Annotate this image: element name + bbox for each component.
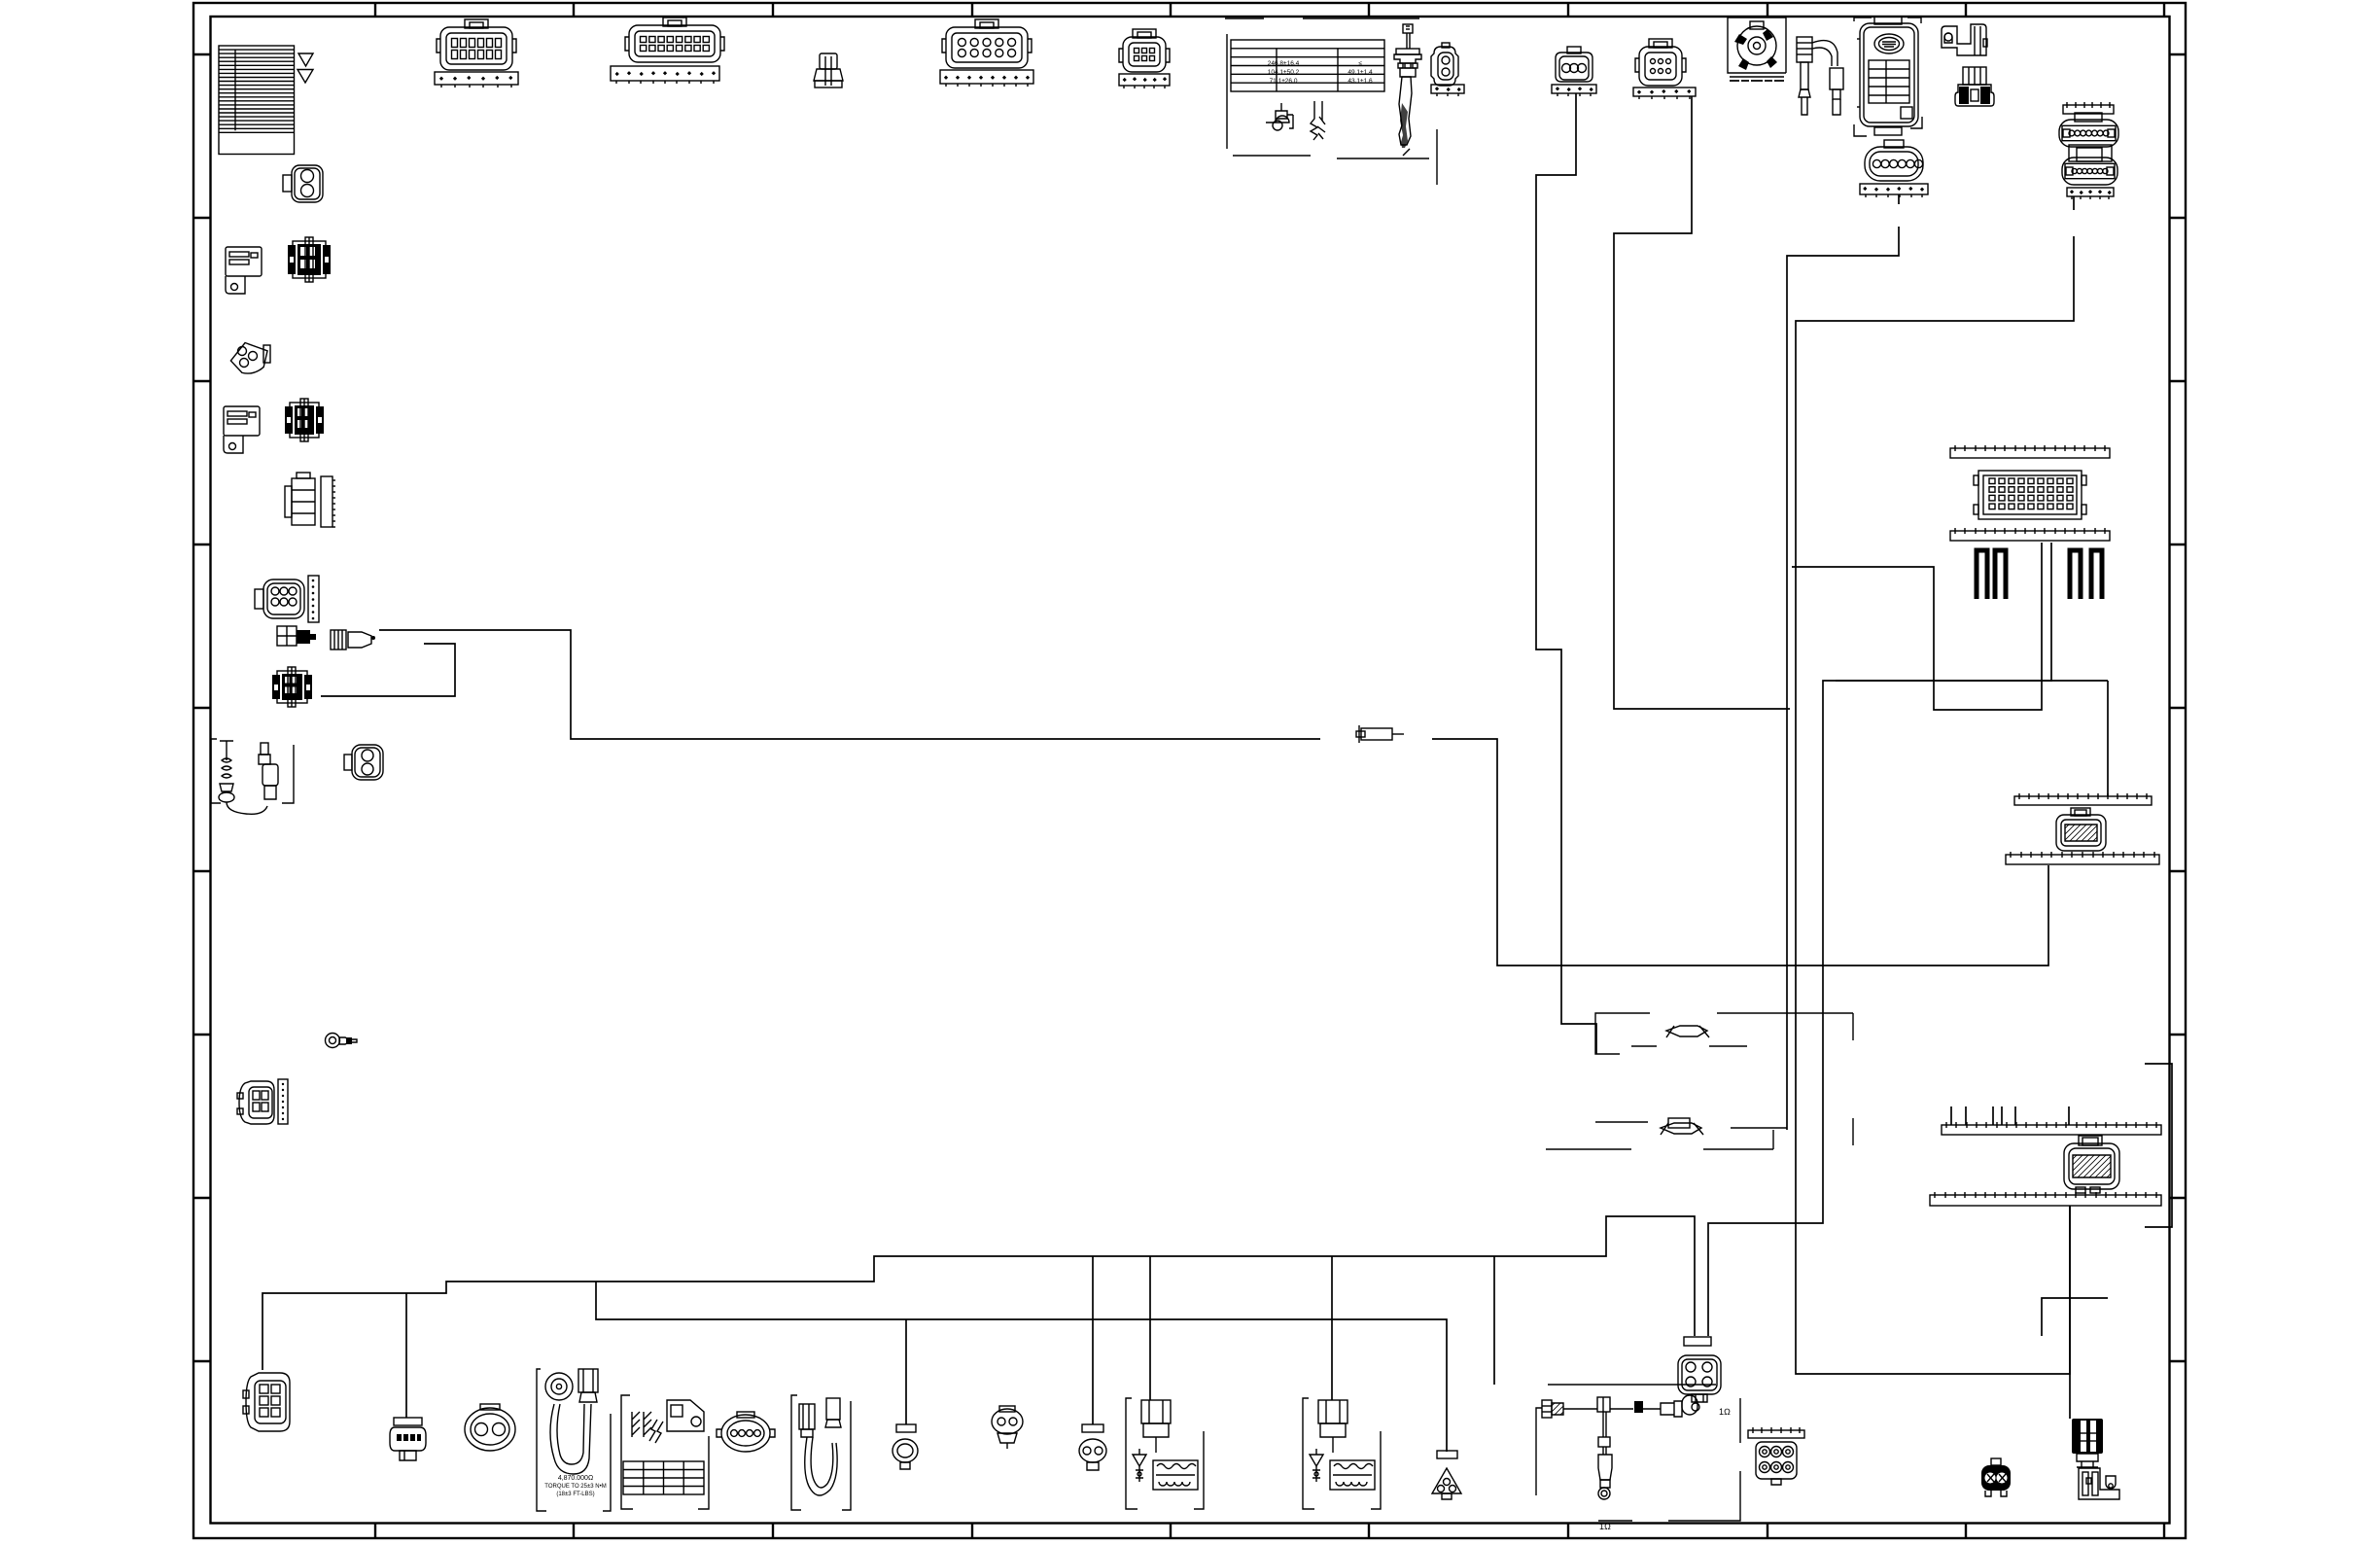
svg-text:(18±3 FT-LBS): (18±3 FT-LBS) [556,1492,594,1497]
connector 6-pin round with strip [255,579,304,618]
connector C110 strip [2063,102,2114,114]
spark sensor T-assembly [1536,1385,1740,1521]
wire from C107 long [1536,93,1596,1054]
connector C110 [2059,113,2118,147]
MAP sensor assembly [621,1395,709,1509]
connector C112 lower strip [2006,852,2159,864]
connector C109 6-pin oval [1865,140,1923,181]
ECU2 pin stubs [1951,1106,2069,1125]
ECU2 lower strip [1930,1192,2161,1206]
pressure switch box 2 [1546,1118,1853,1149]
parts list table [219,46,295,155]
control module [1854,17,1922,136]
wire from C111 [1796,196,2074,1374]
connector 31 with strip [237,1081,274,1124]
pressure switch box 1 [1595,1013,1853,1054]
right bracket [2145,1064,2172,1227]
main harness wire 1 [379,630,2048,966]
sensor connector 50 [1079,1424,1106,1470]
svg-text:1Ω: 1Ω [1599,1522,1611,1531]
connector C111 [2062,145,2117,185]
ECU fork terminals [1977,550,2102,599]
B5GX sensor [390,1418,426,1460]
svg-text:≤: ≤ [1358,60,1362,67]
wire below ECU2 [2069,1206,2071,1419]
wire from C109 [1787,194,1899,1130]
connector 2-pin round [283,165,323,202]
connector 2-pin round B [344,745,383,780]
inline fuse [1356,725,1404,743]
connector 40 L-plug [2079,1468,2119,1499]
triangle connector [227,337,272,377]
wire bottom staircase B [596,1282,1447,1452]
wire ECU to conn36 [1708,543,2051,1336]
pin connector 2 [285,399,324,441]
fuel pump assembly [1394,24,1421,156]
terminal 4-pin [277,626,316,646]
connector C107 3-pin [1556,47,1592,82]
oxygen sensor loop assembly [791,1395,851,1510]
sensor connector 49 [992,1406,1023,1449]
connector C103 small 2-pin [814,53,843,88]
ignition coil assembly 1 [1126,1398,1204,1509]
connector C105 6-pin [1119,29,1170,72]
ignition coil assembly 2 [1303,1398,1381,1509]
svg-text:TORQUE TO 25±3 N•M: TORQUE TO 25±3 N•M [544,1484,606,1490]
connector 36 4-pin [1678,1337,1721,1402]
revision triangle 1 [298,53,313,66]
ECU2 connector [2064,1136,2119,1193]
ECU connector top strip [1950,445,2110,458]
svg-text:49.1±1.4: 49.1±1.4 [1347,69,1373,76]
symbol float [1266,103,1293,128]
wire to B5GX [405,1293,407,1418]
connector 39 [2072,1419,2103,1467]
svg-text:1Ω: 1Ω [1719,1407,1731,1417]
connector 53 [1981,1458,2011,1496]
connector C112 [2056,808,2106,851]
connector C101 12-pin [437,19,516,70]
wire ECU branch W12 [1792,543,2042,710]
connector 27 [272,667,312,707]
oval 5-pin connector [717,1412,775,1452]
wire ECU to C112 top [1836,681,2108,796]
connector C108 6-pin round [1635,39,1686,86]
wire bottom staircase A [262,1216,1695,1370]
connector 38 6-circle [1748,1427,1804,1438]
vertical connector with strip [285,473,315,525]
measurement table [1231,40,1384,91]
relay bracket 1 [226,247,262,294]
vent hose assembly [1797,37,1843,115]
svg-text:71.1±26.0: 71.1±26.0 [1270,78,1298,85]
pin connector 1 [288,237,331,282]
pump motor assembly [1728,18,1786,81]
ECU2 upper strip [1942,1122,2161,1135]
wire from C108 [1614,96,1790,709]
harness wire 2 [321,644,455,696]
cut bracket near ECU2 [2042,1298,2108,1336]
connector 6-pin square bottom-left [243,1373,290,1431]
symbol resistor squiggle [1311,101,1325,140]
connector C104 10-pin [942,19,1032,68]
connector C112 upper strip [2014,793,2152,805]
triangle connector bottom [1432,1451,1461,1499]
svg-text:43.1±1.6: 43.1±1.6 [1347,78,1373,85]
knock sensor assembly [537,1369,611,1511]
fuel sender bracket dashes [1225,18,1437,185]
connector below fuse holder [1955,67,1994,106]
coolant sensor [892,1424,918,1469]
connector C102 16-pin [625,18,724,62]
ring terminal [326,1034,358,1048]
revision triangle 2 [297,70,313,84]
ECU connector block [1974,471,2086,519]
wire drops [906,1256,1494,1424]
ECU lower strip [1950,528,2110,541]
svg-text:246.8±16.4: 246.8±16.4 [1268,60,1300,67]
fuse holder [1942,24,1987,55]
svg-text:104.1±50.2: 104.1±50.2 [1268,69,1300,76]
connector C106 4-pin oval [1431,43,1458,86]
inline terminal pair [331,630,375,650]
ignition cable assembly [211,739,294,814]
relay bracket 2 [224,406,260,453]
oval 2-circle connector [465,1404,515,1451]
svg-text:4,870.000Ω: 4,870.000Ω [558,1475,593,1482]
